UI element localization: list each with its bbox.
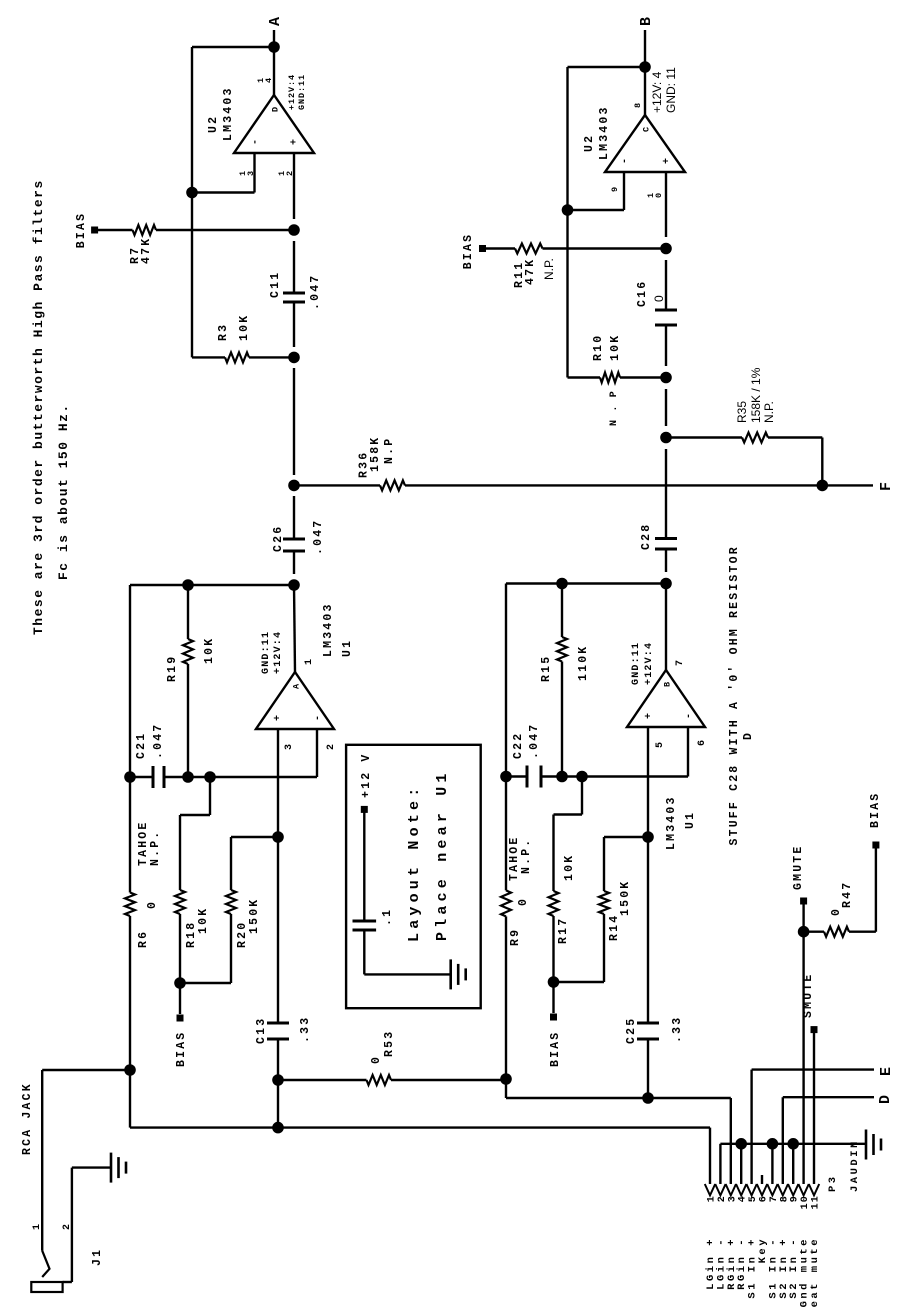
svg-text:N.P.: N.P. <box>149 830 162 866</box>
wire BIAS to R14 <box>554 981 605 983</box>
svg-text:LM3403: LM3403 <box>322 602 335 657</box>
wire C22 top lead <box>506 775 527 777</box>
pad +12V layout note <box>361 806 368 813</box>
capacitor C25 <box>637 1038 659 1041</box>
svg-text:3: 3 <box>284 743 295 750</box>
svg-text:J1: J1 <box>91 1248 104 1266</box>
svg-text:STUFF C28 WITH A '0' OHM RESI: STUFF C28 WITH A '0' OHM RESISTOR <box>728 545 741 845</box>
wire to pin 2 <box>210 776 317 778</box>
junction F line top <box>288 480 300 492</box>
svg-text:U2: U2 <box>583 134 596 152</box>
svg-text:.047: .047 <box>528 723 541 759</box>
svg-text:N . P: N . P <box>609 390 620 426</box>
wire U1A output to node <box>294 585 295 672</box>
wire BIAS to R20 <box>180 982 231 984</box>
junction U1B output node <box>660 578 672 590</box>
resistor R6 0 TAHOE N.P. <box>125 893 135 917</box>
wire to C28 <box>665 449 667 539</box>
wire U2D feedback vertical <box>192 46 274 48</box>
wire P3 ground pin 793.2 <box>792 1144 794 1184</box>
svg-text:C21: C21 <box>135 732 148 759</box>
svg-text:.047: .047 <box>312 519 325 555</box>
wire U2C feedback vertical <box>568 66 646 68</box>
wire node F to label <box>822 484 873 486</box>
wire C26 to U1A output node <box>293 551 295 574</box>
resistor R9 0 TAHOE N.P. <box>501 890 511 916</box>
svg-text:150K: 150K <box>248 898 261 934</box>
ground RCA jack <box>110 1153 113 1183</box>
svg-text:47K: 47K <box>524 258 537 285</box>
svg-text:4: 4 <box>264 77 274 83</box>
junction pin 3 node <box>272 831 284 843</box>
pad BIAS ch2 <box>550 1014 557 1021</box>
svg-text:LM3403: LM3403 <box>222 86 235 141</box>
svg-text:10K: 10K <box>563 854 576 881</box>
wire net D vertical <box>783 1096 874 1098</box>
resistor R36 158K N.P <box>380 480 405 490</box>
svg-text:R14: R14 <box>608 914 621 941</box>
svg-text:B: B <box>638 17 655 26</box>
resistor R15 110K <box>561 662 563 777</box>
svg-text:D: D <box>742 731 755 740</box>
svg-text:N.P.: N.P. <box>762 401 776 423</box>
svg-text:2: 2 <box>717 1195 728 1202</box>
capacitor C16 <box>655 324 677 327</box>
junction C13 / R53 <box>272 1074 284 1086</box>
svg-text:10: 10 <box>800 1195 811 1209</box>
wire to R17 branch <box>562 775 582 777</box>
svg-text:0: 0 <box>370 1055 383 1064</box>
wire bottom line vertical <box>130 1126 710 1128</box>
svg-text:U1: U1 <box>684 811 697 829</box>
wire pin3 net vertical <box>506 1097 731 1099</box>
junction pin13 branch <box>186 187 198 199</box>
capacitor C bypass .1 <box>353 920 377 923</box>
wire C22 to R15 node <box>541 775 562 777</box>
op-amp U1 section B <box>627 670 705 727</box>
svg-text:10K: 10K <box>197 907 210 934</box>
resistor R19 10K <box>187 664 189 777</box>
junction ground bus <box>787 1138 799 1150</box>
svg-text:R35: R35 <box>735 401 749 423</box>
svg-text:+12V:4: +12V:4 <box>287 74 297 110</box>
svg-text:D: D <box>877 1095 894 1104</box>
wire to C16 <box>665 260 667 310</box>
svg-text:150K: 150K <box>619 880 632 916</box>
svg-text:158K: 158K <box>369 436 382 472</box>
ground P3 chassis <box>865 1130 868 1160</box>
svg-text:R6: R6 <box>137 930 150 948</box>
svg-text:6: 6 <box>759 1195 770 1202</box>
svg-text:.047: .047 <box>152 723 165 759</box>
wire GMUTE net <box>802 904 804 1185</box>
svg-text:LM3403: LM3403 <box>665 795 678 850</box>
svg-text:-: - <box>620 157 631 164</box>
wire RCA pin 1 <box>41 1070 43 1251</box>
junction R10 bottom <box>660 372 672 384</box>
resistor R11 47K N.P. <box>486 247 515 249</box>
svg-text:R3: R3 <box>217 323 230 341</box>
svg-text:+12 V: +12 V <box>360 752 373 798</box>
svg-text:+12V:4: +12V:4 <box>644 642 655 685</box>
wire pin3 node to C13 <box>277 837 279 1023</box>
svg-text:BIAS: BIAS <box>75 212 88 248</box>
wire cap to ground corner <box>363 930 365 974</box>
svg-text:5: 5 <box>655 741 666 748</box>
junction R19 left <box>182 771 194 783</box>
wire to P3 pin1 net <box>277 1080 279 1128</box>
svg-text:+12V: 4: +12V: 4 <box>650 71 664 113</box>
junction R18 branch <box>204 771 216 783</box>
wire to R18 branch <box>188 776 210 778</box>
wire C16 to R10 node <box>665 325 667 366</box>
junction R35 / F <box>817 480 829 492</box>
svg-text:7: 7 <box>769 1195 780 1202</box>
wire pin 9 stub <box>623 172 625 210</box>
svg-text:1: 1 <box>304 658 315 665</box>
svg-text:6: 6 <box>697 739 708 746</box>
svg-text:D: D <box>271 106 281 112</box>
svg-text:GMUTE: GMUTE <box>792 844 805 890</box>
svg-text:3: 3 <box>727 1195 738 1202</box>
wire rail to pin3 drop <box>505 1079 507 1098</box>
pad BIAS net ch2 <box>479 245 486 252</box>
svg-text:8: 8 <box>633 102 643 108</box>
junction rail / jack feed <box>124 1064 136 1076</box>
wire pin10 to R11 node <box>665 172 667 237</box>
wire to C26 <box>293 496 295 539</box>
svg-text:+: + <box>290 138 301 145</box>
svg-text:C13: C13 <box>255 1017 268 1044</box>
junction BIAS ch1 <box>174 977 186 989</box>
wire input rail right <box>129 585 131 893</box>
wire to pin 9 <box>568 209 625 211</box>
svg-text:11: 11 <box>811 1195 822 1209</box>
wire P3 ground bus <box>719 1144 721 1184</box>
svg-text:GND:11: GND:11 <box>297 74 307 110</box>
connector P3 pin chevrons <box>705 1184 715 1195</box>
svg-text:F: F <box>878 482 895 491</box>
wire C21 top lead <box>130 776 153 778</box>
junction R15 right <box>556 578 568 590</box>
pad SMUTE <box>811 1026 818 1033</box>
svg-text:N.P: N.P <box>383 437 396 464</box>
op-amp U2 section C <box>605 115 685 172</box>
svg-text:A: A <box>292 683 302 689</box>
svg-text:C25: C25 <box>625 1017 638 1044</box>
svg-text:N.P.: N.P. <box>520 838 533 874</box>
wire pin 3 line <box>277 729 279 837</box>
junction BIAS ch2 <box>548 976 560 988</box>
junction R19 right <box>182 579 194 591</box>
pad GMUTE <box>800 898 807 905</box>
svg-text:.1: .1 <box>381 908 394 926</box>
wire ground drop <box>364 973 450 975</box>
svg-text:C16: C16 <box>636 280 649 307</box>
svg-text:2: 2 <box>62 1223 73 1230</box>
wire R14 to pin5 node <box>604 836 648 838</box>
svg-text:0: 0 <box>652 295 666 302</box>
junction R11 / C16 line <box>660 243 672 255</box>
svg-text:8: 8 <box>779 1195 790 1202</box>
junction pin 5 node <box>642 831 654 843</box>
wire P3 key stub <box>761 1175 763 1184</box>
svg-text:.33: .33 <box>671 1016 684 1043</box>
svg-text:N.P.: N.P. <box>542 258 556 280</box>
wire RCA pin 2 <box>71 1168 73 1282</box>
svg-text:110K: 110K <box>577 645 590 681</box>
wire P3 ground pin 772.4 <box>771 1144 773 1184</box>
svg-text:BIAS: BIAS <box>175 1031 188 1067</box>
junction C21 top <box>124 771 136 783</box>
wire R47 to BIAS <box>875 848 877 932</box>
wire ch2 rail left <box>505 916 507 1079</box>
junction bottom line <box>272 1122 284 1134</box>
svg-text:+12V:4: +12V:4 <box>273 631 284 674</box>
svg-text:47K: 47K <box>140 237 153 264</box>
svg-text:GND:11: GND:11 <box>261 631 272 674</box>
svg-text:B: B <box>663 681 673 687</box>
svg-text:LM3403: LM3403 <box>598 105 611 160</box>
svg-text:JAUDIN: JAUDIN <box>849 1139 861 1192</box>
junction C25 / pin3 net <box>642 1092 654 1104</box>
resistor R14 150K <box>603 914 605 982</box>
svg-text:9: 9 <box>610 186 620 192</box>
wire R35 to F line <box>821 438 823 486</box>
resistor R10 10K <box>568 376 601 378</box>
capacitor C11 <box>283 301 305 304</box>
junction U1A output node <box>288 579 300 591</box>
wire R17 branch horizontal <box>581 777 583 815</box>
wire pin 2 stub <box>316 729 318 777</box>
connector J1 RCA JACK body <box>31 1282 62 1292</box>
svg-text:These are 3rd order butterwor: These are 3rd order butterworth High Pas… <box>31 179 46 635</box>
resistor R17 10K <box>552 815 554 892</box>
svg-text:A: A <box>267 17 284 26</box>
svg-text:1: 1 <box>707 1195 718 1202</box>
svg-text:R47: R47 <box>841 881 854 908</box>
wire ch2 output node vertical <box>506 582 666 584</box>
wire R17 branch vertical <box>554 813 583 815</box>
pad BIAS net ch1 <box>91 227 98 234</box>
svg-text:R10: R10 <box>592 334 605 361</box>
wire RCA ground stub <box>72 1166 111 1168</box>
svg-text:R17: R17 <box>557 917 570 944</box>
wire node F vertical upper <box>294 484 380 486</box>
svg-text:R53: R53 <box>383 1030 396 1057</box>
resistor R47 0 <box>804 931 824 933</box>
capacitor C28 <box>655 548 677 551</box>
svg-text:C: C <box>642 126 652 132</box>
wire node F vertical lower <box>405 484 822 486</box>
wire to P3 pin 3 <box>730 1098 732 1184</box>
svg-text:-: - <box>313 714 324 721</box>
resistor R3 10K <box>192 356 225 358</box>
junction R3 bottom <box>288 352 300 364</box>
wire R18 branch vertical <box>180 814 210 816</box>
wire U1B output to node <box>665 584 667 671</box>
connector J1 RCA JACK tip <box>42 1251 49 1277</box>
junction R35 top <box>660 432 672 444</box>
junction C22 top <box>500 771 512 783</box>
svg-text:.33: .33 <box>299 1016 312 1043</box>
svg-text:0: 0 <box>830 907 843 916</box>
svg-text:U2: U2 <box>207 115 220 133</box>
wire C28 to U1B output node <box>665 549 667 572</box>
junction pin 9 branch <box>562 204 574 216</box>
wire R20 to pin3 node <box>231 836 278 838</box>
svg-text:R15: R15 <box>540 655 553 682</box>
svg-text:R19: R19 <box>166 655 179 682</box>
wire feedback to R10 <box>566 67 568 378</box>
svg-text:9: 9 <box>790 1195 801 1202</box>
svg-text:10K: 10K <box>203 637 216 664</box>
capacitor C13 <box>267 1038 289 1041</box>
svg-text:0: 0 <box>654 192 664 198</box>
svg-text:C26: C26 <box>272 525 285 552</box>
pad BIAS ch1 <box>177 1015 184 1022</box>
wire P3 ground pin 741.2 <box>740 1144 742 1184</box>
junction R47 <box>798 926 810 938</box>
wire to C11 <box>293 241 295 293</box>
svg-text:E: E <box>878 1067 895 1076</box>
svg-text:P3: P3 <box>827 1174 839 1192</box>
svg-text:GND: 11: GND: 11 <box>664 67 678 113</box>
wire feedback top horizontal <box>191 47 193 357</box>
svg-text:SMUTE: SMUTE <box>802 972 815 1018</box>
wire to P3 pin 1 <box>709 1128 711 1184</box>
wire output node vertical <box>130 584 294 586</box>
svg-text:3: 3 <box>246 170 256 176</box>
resistor R18 10K <box>179 815 181 890</box>
svg-text:U1: U1 <box>341 639 354 657</box>
wire pin 5 line <box>647 727 649 837</box>
svg-text:C22: C22 <box>512 732 525 759</box>
wire pin 13 stub <box>253 153 255 193</box>
junction R53 bottom <box>500 1073 512 1085</box>
junction R15 left <box>556 771 568 783</box>
wire pin12 to R7 node <box>293 153 295 219</box>
resistor R35 158K 1% N.P. <box>666 436 742 438</box>
svg-text:R9: R9 <box>509 928 522 946</box>
wire to pin 6 <box>582 775 688 777</box>
svg-text:Fc is about 150 Hz.: Fc is about 150 Hz. <box>56 403 71 580</box>
svg-text:158K / 1%: 158K / 1% <box>749 367 763 423</box>
wire pin 6 stub <box>687 727 689 777</box>
svg-text:BIAS: BIAS <box>462 233 475 269</box>
svg-text:C28: C28 <box>640 523 653 550</box>
resistor R20 150K <box>230 914 232 983</box>
svg-text:+: + <box>662 157 673 164</box>
svg-text:BIAS: BIAS <box>549 1031 562 1067</box>
svg-text:1: 1 <box>32 1223 43 1230</box>
svg-text:10K: 10K <box>609 334 622 361</box>
op-amp U2 section D <box>234 95 314 153</box>
svg-text:0: 0 <box>146 900 159 909</box>
capacitor C21 <box>152 766 155 788</box>
svg-text:10K: 10K <box>238 314 251 341</box>
wire ch2 rail right <box>505 584 507 891</box>
resistor R7 47K <box>98 229 133 231</box>
svg-text:+: + <box>273 714 284 721</box>
layout note box <box>346 745 481 1008</box>
svg-text:2: 2 <box>326 743 337 750</box>
wire jack rail corner <box>42 1069 130 1071</box>
op-amp U1 section A <box>256 672 334 729</box>
junction R17 branch <box>576 771 588 783</box>
svg-text:RCA JACK: RCA JACK <box>21 1082 34 1155</box>
wire to F branch <box>293 368 295 475</box>
wire to pin 13 <box>192 191 255 193</box>
wire input rail left <box>129 916 131 1070</box>
wire jack body to pin 2 <box>63 1281 72 1283</box>
wire net E horizontal <box>750 1070 752 1184</box>
svg-text:+: + <box>644 712 655 719</box>
svg-text:7: 7 <box>675 659 686 666</box>
svg-text:5: 5 <box>748 1195 759 1202</box>
node A junction <box>268 41 280 53</box>
svg-text:-: - <box>684 712 695 719</box>
wire C11 to R3 node <box>293 302 295 347</box>
resistor R53 0 <box>278 1079 367 1081</box>
wire BIAS stub ch1 <box>179 983 181 1014</box>
wire +12V to bypass cap <box>363 809 365 921</box>
node B junction <box>639 61 651 73</box>
wire to R35 node <box>665 389 667 426</box>
svg-text:Seat mute: Seat mute <box>809 1237 821 1310</box>
wire net D horizontal <box>782 1097 784 1184</box>
wire R18 branch horizontal <box>209 777 211 815</box>
wire C21 to R19 node <box>164 776 188 778</box>
svg-text:-: - <box>251 138 262 145</box>
svg-text:BIAS: BIAS <box>869 792 882 828</box>
wire net E vertical <box>752 1068 874 1070</box>
svg-text:Layout Note:: Layout Note: <box>406 784 423 942</box>
capacitor C26 <box>283 550 305 553</box>
svg-text:0: 0 <box>517 897 530 906</box>
wire output U2C to node B <box>644 30 646 115</box>
svg-text:4: 4 <box>738 1195 749 1202</box>
pad BIAS mute <box>872 842 879 849</box>
svg-text:C11: C11 <box>269 271 282 298</box>
svg-text:.047: .047 <box>309 274 322 310</box>
svg-text:Place near U1: Place near U1 <box>434 769 451 941</box>
ground layout note <box>449 959 452 989</box>
wire output U2D to node A <box>273 30 275 95</box>
capacitor C22 <box>526 766 529 788</box>
wire rail to bottom line <box>129 1070 131 1128</box>
junction ground bus <box>735 1138 747 1150</box>
wire SMUTE net <box>813 1033 815 1184</box>
wire R53 to ch2 rail <box>391 1079 506 1081</box>
junction R7 / C11 line <box>288 224 300 236</box>
wire C25 to pin3 net <box>647 1039 649 1098</box>
wire C13 to R53 node <box>277 1039 279 1080</box>
svg-text:GND:11: GND:11 <box>631 642 642 685</box>
wire pin5 node to C25 <box>647 837 649 1023</box>
wire BIAS stub ch2 <box>552 982 554 1013</box>
junction ground bus <box>767 1138 779 1150</box>
